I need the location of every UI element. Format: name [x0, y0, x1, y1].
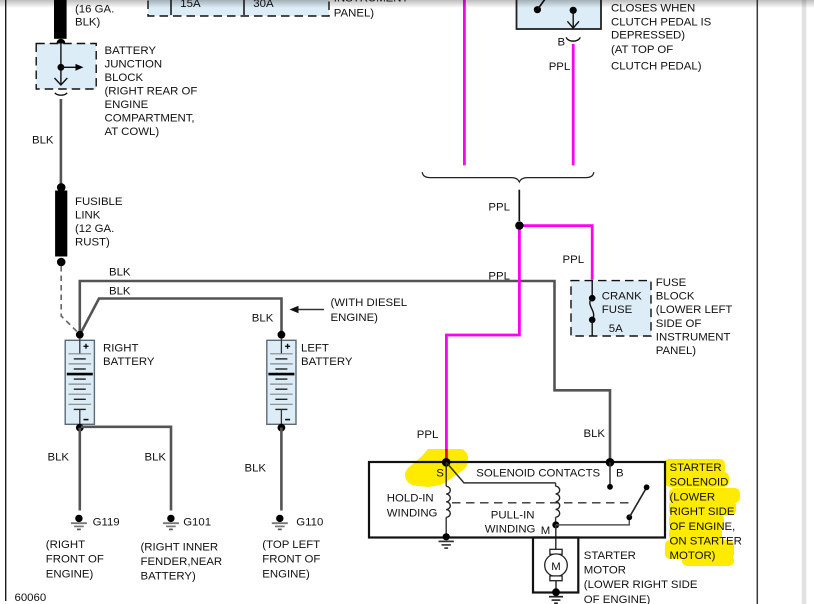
svg-text:M: M: [541, 525, 551, 537]
svg-text:ENGINE: ENGINE: [105, 99, 149, 111]
svg-text:SIDE OF: SIDE OF: [656, 318, 702, 330]
switch pole dot: [534, 6, 541, 13]
fusible link F1 (16 GA. BLK): [54, 0, 67, 39]
brace (wire merge): [422, 172, 594, 182]
svg-text:G110: G110: [296, 516, 323, 528]
hold-in winding L1: [445, 462, 447, 486]
svg-text:PPL: PPL: [488, 202, 510, 214]
junction dot: [57, 39, 66, 48]
junction block tap arrow: [61, 66, 77, 68]
motor M1 symbol: [545, 549, 568, 580]
svg-text:CLUTCH PEDAL): CLUTCH PEDAL): [611, 61, 702, 73]
ground G119: [71, 515, 87, 530]
ground (starter motor): [549, 597, 563, 604]
svg-text:(RIGHT INNER: (RIGHT INNER: [141, 541, 219, 553]
svg-text:PANEL): PANEL): [656, 345, 697, 357]
switch pin B dot: [570, 7, 577, 14]
svg-text:BLK: BLK: [584, 428, 606, 440]
solenoid terminal B dot: [606, 458, 615, 467]
switch blade: [537, 0, 546, 10]
fuse divider pin: [170, 0, 172, 15]
crank fuse element: [591, 281, 593, 295]
svg-text:PULL-IN: PULL-IN: [491, 510, 535, 522]
svg-text:FUSE: FUSE: [656, 277, 687, 289]
clutch start switch (partial at top): [517, 0, 602, 29]
ground (solenoid case): [439, 541, 454, 548]
svg-text:SOLENOID CONTACTS: SOLENOID CONTACTS: [476, 467, 600, 479]
svg-text:(RIGHT REAR OF: (RIGHT REAR OF: [105, 86, 198, 98]
svg-text:BLK: BLK: [48, 451, 70, 463]
svg-text:(RIGHT: (RIGHT: [46, 539, 85, 551]
note (with diesel engine) arrow: [297, 309, 324, 311]
fixed contact from B: [609, 462, 611, 485]
junction dot (right battery -): [76, 424, 84, 432]
svg-text:OF ENGINE): OF ENGINE): [584, 594, 651, 604]
svg-text:BATTERY: BATTERY: [301, 356, 353, 368]
svg-text:FRONT OF: FRONT OF: [46, 554, 104, 566]
wire M node to starter motor: [555, 525, 557, 549]
junction dot (left battery -): [278, 424, 286, 432]
wire BLK right battery to left battery: [81, 299, 282, 334]
svg-text:PPL: PPL: [488, 271, 510, 283]
wire M node to contact pivot: [556, 518, 630, 525]
svg-text:BLK: BLK: [32, 135, 54, 147]
svg-text:PPL: PPL: [563, 254, 585, 266]
svg-text:JUNCTION: JUNCTION: [105, 59, 163, 71]
mechanical link (dashed): [452, 502, 629, 504]
svg-text:WINDING: WINDING: [387, 507, 438, 519]
fusible link F2 (12 GA. RUST): [55, 191, 67, 257]
junction block output arrow: [55, 78, 68, 85]
junction dot: [57, 183, 66, 192]
battery RIGHT BATTERY: [65, 338, 94, 425]
ground G101: [163, 515, 179, 530]
junction dot (left battery +): [278, 331, 286, 339]
svg-text:PANEL): PANEL): [334, 8, 375, 20]
svg-text:FUSIBLE: FUSIBLE: [75, 196, 123, 208]
svg-text:BLK: BLK: [245, 462, 267, 474]
svg-text:G101: G101: [183, 516, 211, 528]
junction dot (motor ground): [552, 588, 560, 596]
pull-in winding L2: [555, 483, 557, 486]
junction dot (right battery +): [76, 331, 84, 339]
junction dot M node: [552, 521, 559, 528]
svg-text:60060: 60060: [15, 592, 47, 604]
wire (dashed) fusible link to right battery: [61, 266, 78, 333]
starter solenoid box: [369, 462, 665, 538]
svg-text:LINK: LINK: [75, 210, 101, 222]
svg-text:BLOCK: BLOCK: [656, 291, 695, 303]
wire PPL stub below brace: [518, 190, 520, 221]
svg-text:RIGHT: RIGHT: [103, 343, 138, 355]
svg-text:PPL: PPL: [549, 61, 571, 73]
svg-text:ENGINE): ENGINE): [46, 568, 94, 580]
svg-text:(WITH DIESEL: (WITH DIESEL: [331, 297, 408, 309]
wire BLK right battery to G119: [79, 428, 82, 511]
svg-text:HOLD-IN: HOLD-IN: [387, 493, 434, 505]
svg-text:RUST): RUST): [75, 237, 110, 249]
svg-text:(TOP LEFT: (TOP LEFT: [262, 539, 320, 551]
fuse block (crank fuse): [571, 281, 651, 336]
junction dot: [57, 258, 66, 267]
svg-text:MOTOR: MOTOR: [584, 565, 626, 577]
svg-text:CRANK: CRANK: [602, 291, 642, 303]
svg-text:BATTERY: BATTERY: [105, 45, 157, 57]
svg-text:STARTER: STARTER: [584, 550, 636, 562]
svg-text:COMPARTMENT,: COMPARTMENT,: [105, 113, 195, 125]
wire S to pull-in winding: [446, 462, 555, 483]
wire BLK bus: right battery to starter B terminal: [80, 281, 610, 461]
wire BLK right battery to G101: [81, 427, 171, 511]
connector at clutch switch pin B: [566, 37, 580, 41]
svg-text:BLK: BLK: [109, 266, 131, 278]
highlight marker around solenoid S terminal: [405, 449, 468, 487]
svg-text:(AT TOP OF: (AT TOP OF: [611, 44, 673, 56]
svg-text:ENGINE): ENGINE): [331, 312, 379, 324]
wire PPL (left branch from top): [463, 0, 466, 165]
svg-text:PPL: PPL: [417, 429, 439, 441]
highlight marker over starter solenoid note text: [664, 459, 740, 566]
wire PPL splice to solenoid S: [446, 226, 519, 461]
ground G110: [272, 515, 288, 530]
svg-text:(12 GA.: (12 GA.: [75, 223, 114, 235]
svg-text:G119: G119: [93, 516, 120, 528]
svg-text:FRONT OF: FRONT OF: [262, 554, 320, 566]
svg-text:BATTERY: BATTERY: [103, 356, 155, 368]
svg-text:BLK: BLK: [109, 285, 131, 297]
connector C100: [55, 93, 67, 95]
contact pivot dot: [626, 514, 632, 520]
svg-text:INSTRUMENT: INSTRUMENT: [656, 331, 731, 343]
wire PPL from clutch switch: [572, 44, 575, 165]
svg-text:BLK: BLK: [252, 312, 274, 324]
wire motor to ground: [555, 581, 557, 589]
svg-text:FENDER,NEAR: FENDER,NEAR: [141, 556, 223, 568]
svg-text:B: B: [616, 468, 624, 480]
svg-text:BLK): BLK): [75, 17, 101, 29]
svg-text:M: M: [551, 561, 561, 573]
junction dot PPL splice: [515, 221, 523, 229]
movable contact blade: [629, 488, 646, 517]
battery LEFT BATTERY: [267, 338, 296, 425]
svg-text:FUSE: FUSE: [602, 304, 633, 316]
svg-text:CLUTCH PEDAL IS: CLUTCH PEDAL IS: [611, 17, 712, 29]
fuse divider pin: [243, 0, 245, 15]
wire BLK junction block to fusible link: [60, 99, 63, 184]
svg-text:AT COWL): AT COWL): [105, 126, 160, 138]
battery junction block: [36, 44, 96, 90]
svg-text:BLK: BLK: [145, 451, 167, 463]
fuse block (instrument panel, partial at top): [148, 0, 329, 16]
junction dot (hold-in to ground): [443, 533, 450, 540]
wire PPL splice to crank fuse: [519, 226, 592, 280]
starter motor box: [533, 538, 578, 593]
svg-text:(LOWER RIGHT SIDE: (LOWER RIGHT SIDE: [584, 579, 698, 591]
solenoid terminal S dot: [442, 458, 451, 467]
svg-text:5A: 5A: [609, 323, 623, 335]
wire BLK left battery to G110: [280, 428, 283, 511]
svg-text:LEFT: LEFT: [301, 343, 329, 355]
svg-text:B: B: [558, 36, 566, 48]
svg-text:BLOCK: BLOCK: [105, 72, 144, 84]
svg-text:WINDING: WINDING: [485, 523, 536, 535]
svg-text:BATTERY): BATTERY): [141, 571, 196, 583]
junction block tap dot: [58, 64, 65, 71]
svg-text:DEPRESSED): DEPRESSED): [611, 30, 685, 42]
svg-text:ENGINE): ENGINE): [262, 568, 310, 580]
svg-text:(LOWER LEFT: (LOWER LEFT: [656, 304, 733, 316]
